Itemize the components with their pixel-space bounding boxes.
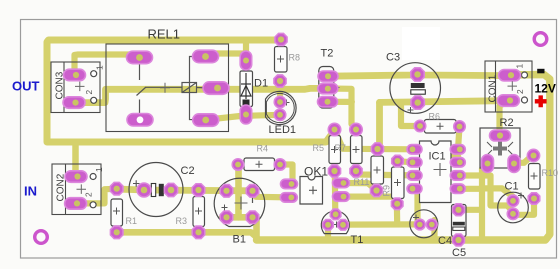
pad: REL1 pin BL <box>127 114 153 127</box>
svg-text:R3: R3 <box>176 216 188 226</box>
pad: C4 right pad <box>426 219 437 230</box>
pad: R5 bottom pad <box>328 165 340 177</box>
relay REL1 contact bracket <box>190 57 199 120</box>
pad: C2 right pad <box>164 183 177 196</box>
wire: T1 left pad to bottom bus <box>325 225 331 240</box>
wire: R4 left pad down through B1 <box>235 165 242 218</box>
wire: C4 right pad to bottom bus <box>431 220 437 240</box>
relay REL1 outline <box>106 44 229 132</box>
pad: CON3 pad 2 <box>63 97 85 109</box>
pad: R11 bottom pad <box>370 184 382 196</box>
resistor R3 body <box>193 197 205 227</box>
pad: R3 bottom pad <box>192 226 205 239</box>
wire: R4 right pad to OK1 TL <box>280 165 293 185</box>
optocoupler OK1 body <box>300 177 323 205</box>
svg-text:R8: R8 <box>289 53 301 63</box>
pad: IC1 pin 7 (right row) <box>450 158 465 168</box>
svg-text:T1: T1 <box>351 234 364 246</box>
pad: OK1 pad BL <box>280 193 297 203</box>
wire: R2 BR to R10 top <box>514 156 534 163</box>
pad: T2 pad 2 <box>318 83 338 94</box>
CON3 origin cross <box>75 82 85 92</box>
wire: drop from top bus to D1 top pad <box>243 40 249 61</box>
resistor R6 body <box>425 120 457 134</box>
connector T2 outline <box>319 67 334 109</box>
pad: REL1 pin MR <box>203 82 229 95</box>
pad: R7 top pad <box>350 123 363 136</box>
pad: C5 bottom pad <box>453 234 465 246</box>
relay REL1 coil symbol <box>182 83 211 93</box>
pad: T2 pad 1 <box>318 71 338 82</box>
svg-text:12V: 12V <box>535 82 556 96</box>
svg-text:B1: B1 <box>233 234 246 246</box>
capacitor C4 plus mark <box>413 215 419 221</box>
pad: D1 anode pad <box>240 105 252 124</box>
wire: CON3 pad1 to REL1 TL pad <box>75 55 140 76</box>
wire: R7 bottom to IC1 pin3 <box>356 171 415 175</box>
bridge B1 minus mark <box>252 196 254 203</box>
svg-text:REL1: REL1 <box>148 27 181 42</box>
wire: T2 pad1 through C3 top pad to CON1 pad1 <box>328 75 510 77</box>
resistor R9 body <box>392 167 405 199</box>
CON2 pin1 circle <box>90 174 96 180</box>
wire: B1 bottom pad row <box>222 214 257 221</box>
wire: CON3 pad2 to relay common to T2 pad2 <box>74 88 328 102</box>
pad: R1 top pad <box>110 182 123 195</box>
svg-text:CON1: CON1 <box>488 74 499 102</box>
pad: REL1 pin TR <box>193 50 219 63</box>
pad: R8 bottom pad <box>274 75 286 87</box>
wire: CON2 pad2 to R1 top <box>76 189 117 204</box>
wire: REL1 TR pad to D1 top drop <box>206 54 247 57</box>
capacitor C5 plates <box>453 222 465 226</box>
svg-text:R10: R10 <box>542 168 559 178</box>
connector CON1 outline <box>485 61 532 112</box>
wire: T2 pad2 to R7 top <box>328 89 357 130</box>
pad: R7 bottom pad <box>350 165 362 177</box>
supply plus mark <box>535 95 547 107</box>
pad: LED1 anode pad <box>274 96 286 108</box>
pad: OK1 pad TR <box>333 178 350 188</box>
svg-text:CON3: CON3 <box>55 71 66 99</box>
pad: CON2 pad 2 <box>65 198 87 210</box>
pad: T1 left pad <box>323 220 334 231</box>
CON2 origin cross <box>77 184 87 194</box>
wire: jog up to B1 bottom pads <box>253 217 260 240</box>
pad: CON1 pad 2 <box>497 95 519 107</box>
wire: IC1 pin7 stub <box>447 154 459 160</box>
pad: IC1 pin 8 (right row) <box>450 145 465 155</box>
relay REL1 origin cross <box>160 83 170 93</box>
svg-text:OUT: OUT <box>12 79 40 94</box>
pad: R4 right pad <box>274 159 286 171</box>
resistor R6 plus mark <box>437 123 444 130</box>
pad: REL1 pin TL <box>127 51 153 64</box>
svg-text:1: 1 <box>94 167 104 172</box>
pad: IC1 pin 3 (left row) <box>407 171 422 181</box>
pad: R9 top pad <box>392 155 404 167</box>
capacitor C5 body <box>452 205 467 237</box>
capacitor C1 outline <box>498 192 529 223</box>
svg-text:1: 1 <box>95 65 105 70</box>
wire: y=102 bus through C3 bottom to CON1 pad2 <box>380 101 509 103</box>
pad: R11 top pad <box>371 143 383 155</box>
capacitor C3 outline <box>390 63 441 114</box>
pad: B1 pad TL <box>220 185 233 198</box>
svg-text:C2: C2 <box>181 165 195 177</box>
wire: drop to R11 top <box>378 102 380 149</box>
resistor R8 body <box>275 47 288 73</box>
svg-text:R5: R5 <box>313 143 325 153</box>
svg-text:CON2: CON2 <box>56 173 67 201</box>
pad: R1 bottom pad <box>110 226 123 239</box>
pad: CON2 pad 1 <box>65 171 87 183</box>
resistor R9 plus mark <box>394 179 401 186</box>
transistor T1 plus mark <box>334 222 340 228</box>
svg-text:OK1: OK1 <box>304 165 328 179</box>
wire: CON1 pad2 to R2 top pad <box>500 101 509 133</box>
resistor R1 plus mark <box>113 208 120 215</box>
wire: B1 TR to OK1 BL <box>253 191 290 197</box>
pad: R2 bottom-left pad <box>482 155 494 173</box>
pad: R9 bottom pad <box>391 198 403 210</box>
svg-text:R7: R7 <box>335 143 347 153</box>
pad: B1 pad BL <box>220 211 233 224</box>
pad: C3 top pad <box>411 68 424 81</box>
pad: IC1 pin 4 (left row) <box>407 184 422 194</box>
pad: R5 top pad <box>328 123 341 136</box>
wire: R5 top pad to IC1 pin1 <box>335 131 415 149</box>
CON3 pin2 circle <box>91 97 97 103</box>
capacitor C3 plus mark <box>408 107 414 113</box>
CON1 pin1 circle <box>522 72 528 78</box>
wire: OK1 TR to R11 bottom <box>341 183 377 190</box>
capacitor C1 plus mark <box>518 193 524 199</box>
capacitor C4 outline <box>410 210 438 238</box>
pad: OK1 pad TL <box>281 179 298 189</box>
pad: R8 top pad <box>275 33 287 45</box>
CON1 pin2 circle <box>522 97 528 103</box>
svg-text:R4: R4 <box>257 144 269 154</box>
capacitor C2 plus mark <box>133 180 140 187</box>
pad: R3 top pad <box>192 184 205 197</box>
CON1 origin cross <box>508 81 518 91</box>
bridge B1 outline <box>214 178 265 226</box>
capacitor C3 plates <box>411 83 426 94</box>
resistor R3 plus mark <box>195 208 202 215</box>
pad: C2 left pad <box>137 183 151 197</box>
pad: R10 bottom pad <box>528 193 540 205</box>
svg-text:2: 2 <box>84 192 94 197</box>
svg-text:D1: D1 <box>254 78 268 90</box>
pad: T1 top pad <box>330 209 341 220</box>
svg-text:2: 2 <box>515 89 525 94</box>
svg-text:2: 2 <box>84 90 94 95</box>
wire: R9 top to IC1 pin2 <box>398 161 416 162</box>
resistor R11 plus mark <box>374 167 381 174</box>
CON3 pin1 circle <box>91 71 97 77</box>
wire: CON1 pad1 right edge down to bottom bus <box>257 75 550 241</box>
diode D1 body <box>240 71 253 107</box>
wire: horizontal bus y=141 to R5 top pad <box>47 131 335 143</box>
wire: IC1 pin5 branch <box>458 186 482 192</box>
pad: CON1 pad 1 <box>499 70 521 82</box>
pad: C1 top pad <box>507 195 519 207</box>
diode D1 symbol <box>241 73 251 99</box>
wire: R8 bottom pad to LED1 top pad <box>277 81 283 102</box>
pad: C5 top pad <box>453 204 465 216</box>
optocoupler OK1 plus mark <box>309 186 317 194</box>
svg-text:R1: R1 <box>126 216 138 226</box>
svg-text:C1: C1 <box>505 181 519 193</box>
svg-text:R6: R6 <box>429 112 441 122</box>
svg-text:T2: T2 <box>321 48 334 60</box>
wire: REL1 BR pad to D1 bottom to LED1 bottom <box>206 115 280 120</box>
mounting hole bottom-left <box>35 231 48 244</box>
resistor R8 plus mark <box>277 56 284 63</box>
LED LED1 outline <box>266 91 297 124</box>
LED LED1 plus mark <box>284 100 290 106</box>
wire: R6 right pad to IC1 pin8 <box>458 127 460 150</box>
svg-text:R2: R2 <box>500 117 514 129</box>
resistor R4 plus mark <box>256 161 263 168</box>
resistor R10 plus mark <box>531 173 538 180</box>
pad: R2 bottom-right pad <box>508 155 520 173</box>
capacitor C2 plates <box>151 184 164 197</box>
svg-text:IC1: IC1 <box>429 151 446 163</box>
resistor R1 body <box>111 199 123 226</box>
wire: C5 top pad branch <box>459 207 483 213</box>
wire: OK1 BR to R9 bottom to y=224 bus <box>341 197 397 224</box>
wire: y=224 bus T1 right to C4 left <box>343 221 420 227</box>
pad: IC1 pin 5 (right row) <box>450 184 465 194</box>
wire: y=190 bus R1 top to B1 TR <box>117 189 253 191</box>
wire: R6 left pad up to y=102 bus <box>401 104 420 126</box>
pad: R10 top pad <box>527 149 539 161</box>
wire: top bus from R8 top pad to left edge down <box>47 40 281 139</box>
pad: B1 pad BR <box>246 211 259 224</box>
pad: LED1 cathode pad <box>274 109 286 121</box>
pad: T1 right pad <box>338 220 349 231</box>
pad: R6 left pad <box>414 120 426 132</box>
trimmer R2 corner marks <box>487 142 513 155</box>
wire: branch down to CON2 pad1 <box>72 142 79 177</box>
trimmer R2 screw slot <box>493 142 507 156</box>
resistor R5 plus mark <box>331 146 338 153</box>
pad: R6 right pad <box>454 121 466 133</box>
IC IC1 origin cross <box>434 163 447 176</box>
resistor R10 body <box>529 164 541 190</box>
wire: IC1 pin4 down to C4 left <box>416 189 420 224</box>
bridge B1 origin cross <box>235 197 248 210</box>
pad: REL1 pin BR <box>193 114 219 127</box>
resistor R5 body <box>329 136 341 164</box>
pad: OK1 pad BR <box>333 192 350 202</box>
svg-text:1: 1 <box>515 64 525 69</box>
svg-text:C5: C5 <box>452 247 466 259</box>
wire: R10 bottom to C1 bottom <box>513 199 534 215</box>
resistor R11 body <box>371 156 384 184</box>
trimmer R2 outline <box>480 128 520 168</box>
pad: R4 left pad <box>232 159 244 171</box>
pad: CON3 pad 1 <box>64 69 86 81</box>
connector T2 origin cross <box>332 84 340 92</box>
svg-text:C4: C4 <box>438 235 452 247</box>
mounting hole top-right <box>534 33 547 46</box>
resistor R4 body <box>244 158 275 171</box>
resistor R7 plus mark <box>353 146 360 153</box>
IC IC1 body <box>420 141 452 203</box>
pad: C3 bottom pad <box>411 96 424 109</box>
transistor T1 outline <box>321 211 349 234</box>
pad: C1 bottom pad <box>507 208 519 220</box>
capacitor C2 outline <box>129 163 183 217</box>
svg-text:R9: R9 <box>382 185 392 197</box>
wire: IC1 pin6 to C1 bottom pad <box>458 176 513 214</box>
pad: IC1 pin 1 (left row) <box>407 145 422 155</box>
wire: R2 BL down to bottom bus <box>482 164 488 240</box>
LED LED1 inner ring <box>266 93 294 122</box>
pad: C4 left pad <box>414 219 425 230</box>
svg-text:LED1: LED1 <box>269 124 297 136</box>
CON2 pin2 circle <box>90 202 96 208</box>
pad: D1 cathode pad <box>240 51 252 70</box>
supply minus bar <box>537 69 544 74</box>
resistor R7 body <box>351 136 363 164</box>
pad: R2 top pad <box>490 130 511 141</box>
svg-text:IN: IN <box>24 184 37 199</box>
wire: T2 pad3 stub <box>328 99 352 105</box>
connector CON3 outline <box>51 62 100 113</box>
svg-text:C3: C3 <box>386 52 400 64</box>
wire: R5 bottom through OK1 right pads to T1 top <box>332 171 339 214</box>
pad: IC1 pin 6 (right row) <box>450 171 465 181</box>
relay REL1 switch symbol <box>137 64 183 113</box>
svg-text:R11: R11 <box>354 177 370 187</box>
wire: bottom-left bus R1 to jog <box>117 232 257 237</box>
pad: B1 pad TR <box>246 185 259 198</box>
wire: branch to C1 top pad <box>482 188 513 200</box>
connector CON2 outline <box>52 164 101 215</box>
bridge B1 plus mark <box>222 205 228 211</box>
pad: IC1 pin 2 (left row) <box>407 158 422 168</box>
pad: T2 pad 3 <box>318 97 338 108</box>
